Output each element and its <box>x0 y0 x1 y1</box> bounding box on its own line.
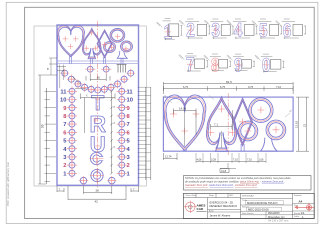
svg-text:Resp.: Resp. <box>209 195 215 197</box>
svg-text:06/12/2015: 06/12/2015 <box>268 213 280 215</box>
svg-text:EXERCICIO 04 - 2D: EXERCICIO 04 - 2D <box>210 201 234 205</box>
digit 1 engraving detail <box>155 18 182 43</box>
club cutout (band) <box>104 28 133 58</box>
svg-text:MEC-2015-03-06: MEC-2015-03-06 <box>248 207 269 211</box>
digit 4 engraving detail <box>226 19 258 42</box>
svg-text:2: 2 <box>127 163 130 169</box>
spade cutout (band) <box>82 28 101 59</box>
enlarged exit channels <box>183 144 244 151</box>
digit 0 engraving detail <box>254 54 285 77</box>
suits band lower edge <box>57 61 139 64</box>
suit exit channels <box>69 55 123 64</box>
letter O groove <box>90 169 104 183</box>
svg-text:10: 10 <box>60 98 66 104</box>
svg-text:Data: Escala: Data: Escala <box>242 212 254 215</box>
bottom dimensions <box>57 186 139 204</box>
svg-text:Autor: Autor <box>209 210 214 213</box>
svg-text:21: 21 <box>303 123 307 127</box>
enlarged diamond cutout <box>233 98 253 146</box>
svg-text:marcador 3mm prof., texto truc: marcador 3mm prof., texto truco 3mm prof… <box>185 183 257 187</box>
svg-text:41,8: 41,8 <box>221 169 227 173</box>
left dimension ladder <box>38 58 57 184</box>
enlarged band outline <box>163 97 293 151</box>
upper hole pair <box>85 64 95 74</box>
svg-text:de avaliação pode seguir as se: de avaliação pode seguir as seguintes me… <box>185 180 285 184</box>
svg-text:2: 2 <box>63 163 66 169</box>
svg-text:1,06: 1,06 <box>259 159 264 162</box>
svg-text:NOTAS: As profundidades dos ca: NOTAS: As profundidades dos canais podem… <box>185 176 291 180</box>
main view viewport boundary <box>34 26 146 186</box>
svg-text:# Desc./Data: # Desc./Data <box>185 194 197 197</box>
svg-text:28: 28 <box>96 189 100 193</box>
svg-text:11: 11 <box>127 89 134 95</box>
diamond cutout (band) <box>97 30 112 58</box>
enlarged view dimensions <box>163 80 309 173</box>
enlarged spade cutout <box>206 97 236 152</box>
svg-text:42: 42 <box>95 200 99 204</box>
svg-text:4,06: 4,06 <box>197 159 202 162</box>
svg-text:14,08: 14,08 <box>179 107 186 111</box>
enlarged band centerline <box>227 93 229 155</box>
svg-text:James W. Alvares: James W. Alvares <box>210 214 231 218</box>
enlarged arc-center marks <box>170 106 279 136</box>
svg-text:13,63: 13,63 <box>295 121 299 128</box>
band arc-center marks <box>63 30 129 51</box>
svg-text:DESENHO MECANICO: DESENHO MECANICO <box>210 204 238 208</box>
svg-text:6,75: 6,75 <box>183 85 189 89</box>
svg-text:PDF created with pdfFactory tr: PDF created with pdfFactory trial <box>6 162 10 206</box>
band extension dims <box>57 65 86 89</box>
svg-text:K: K <box>86 94 88 98</box>
digit 6 engraving detail <box>275 19 306 42</box>
title block <box>183 193 314 219</box>
svg-text:7: 7 <box>63 122 66 128</box>
vertical centerline <box>97 21 99 189</box>
svg-text:MARCADOR DE TRUCO: MARCADOR DE TRUCO <box>247 201 277 205</box>
left hole column with numbers <box>60 86 77 178</box>
digit 9 engraving detail <box>226 54 255 77</box>
interior dimension lines <box>81 76 116 175</box>
digit 2 engraving detail <box>178 19 210 42</box>
svg-text:0,75: 0,75 <box>248 85 254 89</box>
upper pair dimension <box>90 74 106 81</box>
svg-text:6,75: 6,75 <box>220 85 226 89</box>
enlarged club cutout <box>238 98 286 151</box>
svg-text:16: 16 <box>97 76 101 80</box>
enlarged heart cutout <box>164 95 206 151</box>
svg-text:A4 210 x 297 mm: A4 210 x 297 mm <box>268 219 288 223</box>
svg-text:7,10: 7,10 <box>247 159 252 162</box>
right hole column with numbers <box>117 86 134 178</box>
svg-text:DESCRIÇÃO: DESCRIÇÃO <box>242 195 254 198</box>
bottom hole pair <box>79 176 88 185</box>
svg-text:1/1: 1/1 <box>301 211 305 215</box>
svg-text:11: 11 <box>60 89 67 95</box>
right dimension ladder <box>138 87 151 180</box>
svg-text:7,10: 7,10 <box>276 85 282 89</box>
svg-text:Dimensões: mm: Dimensões: mm <box>268 216 285 219</box>
digit 8 engraving detail <box>203 54 231 77</box>
svg-text:Formato: Formato <box>294 194 302 197</box>
svg-text:A4: A4 <box>299 200 303 204</box>
letter C groove <box>90 152 104 166</box>
heart cutout (band) <box>57 25 84 57</box>
small comb detail <box>117 65 127 73</box>
svg-text:UFO: UFO <box>229 195 234 197</box>
svg-text:99: 99 <box>41 124 45 128</box>
necklace arc holes <box>60 69 135 95</box>
svg-text:12,74: 12,74 <box>165 155 172 159</box>
svg-text:7,10: 7,10 <box>233 159 238 162</box>
svg-text:7: 7 <box>127 122 130 128</box>
digit 7 engraving detail <box>178 54 208 77</box>
svg-text:Folha: Folha <box>294 216 300 218</box>
svg-text:CAD: CAD <box>197 207 204 211</box>
notes box <box>184 176 312 190</box>
svg-text:10: 10 <box>127 98 133 104</box>
svg-text:7,1: 7,1 <box>214 123 218 127</box>
digit 3 engraving detail <box>203 19 234 42</box>
inner drawing frame <box>25 7 315 218</box>
digit 5 engraving detail <box>251 19 282 42</box>
plate outline <box>57 25 139 185</box>
svg-text:3,28: 3,28 <box>211 159 216 162</box>
svg-text:81,5: 81,5 <box>226 80 232 84</box>
